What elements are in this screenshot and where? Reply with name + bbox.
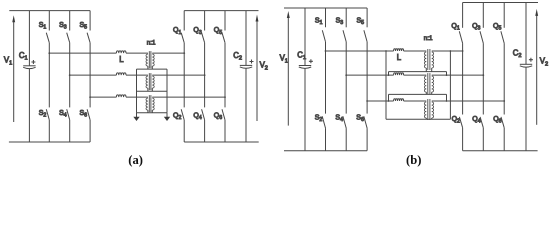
node: (b) output tap leg 1	[462, 50, 464, 52]
wire: (a) input bridge bottom rail	[9, 141, 90, 143]
wire: (b) input bridge top rail	[284, 7, 367, 9]
capacitor C1 (a)	[23, 65, 35, 67]
transformer T2 (b) primary winding	[424, 76, 426, 92]
capacitor C1 (a) leg wire	[28, 11, 30, 142]
wire: (b) output line C	[432, 100, 505, 102]
wire: (a) primary neutral bus	[136, 69, 138, 113]
V2 voltage arrow (a)	[256, 21, 258, 121]
transformer T3 (b) secondary winding	[432, 102, 434, 118]
wire: (a) Q leg 2 lower section	[204, 120, 206, 142]
svg-text:n:1: n:1	[424, 35, 433, 42]
wire: (a) leg 2 lower section	[69, 120, 71, 142]
wire: (b) Q leg 1 lower section	[462, 128, 464, 151]
switch S5 (b top leg 3)	[366, 8, 368, 27]
transformer T2 (a) secondary winding	[152, 76, 154, 88]
transformer T3 (b) core	[428, 99, 430, 120]
wire: (b) leg 1 lower section	[325, 128, 327, 151]
inductor L2 (a phase B)	[116, 73, 126, 75]
V2 voltage arrow (b)	[536, 15, 538, 124]
switch S2 (a bottom leg 1)	[46, 109, 49, 120]
wire: (a) leg 3 lower section	[89, 120, 91, 142]
wire: (a) leg 1 mid section	[48, 43, 50, 108]
wire: (b) Q leg 1 mid section	[462, 43, 464, 114]
switch S3 (a top leg 2)	[69, 11, 71, 31]
wire: (a) T3 bottom connector	[137, 112, 168, 114]
transformer T3 (a) secondary winding	[152, 98, 154, 110]
switch Q3 (b top leg 2)	[482, 3, 484, 28]
inductor L (b phase C)	[394, 99, 404, 101]
switch Q6 (b bottom leg 3)	[501, 117, 504, 128]
V1 voltage arrow (b)	[287, 18, 289, 126]
wire: (b) primary delta jump T3-to-A	[385, 51, 387, 119]
wire: (b) input bridge bottom rail	[284, 150, 367, 152]
svg-text:n:1: n:1	[147, 40, 156, 47]
switch Q1 (b top leg 1)	[462, 3, 464, 28]
wire: (a) phase line A	[49, 52, 116, 54]
node: (b) output tap leg 3	[503, 100, 505, 102]
wire: (b) output line A	[432, 50, 463, 52]
switch S2 (b bottom leg 1)	[322, 116, 325, 128]
wire: (a) phase line B	[70, 74, 117, 76]
wire: (b) secondary delta jump T3-to-a	[449, 51, 451, 119]
switch Q2 (a bottom leg 1)	[181, 109, 184, 120]
V1 voltage arrow (a)	[13, 22, 15, 122]
switch S3 (b top leg 2)	[345, 8, 347, 27]
wire: (a) output bridge bottom rail	[184, 141, 259, 143]
wire: (b) T2 bottom connector	[389, 93, 447, 95]
wire: (b) phase line B	[346, 74, 393, 76]
switch Q5 (a top leg 3)	[224, 11, 226, 31]
wire: (a) leg 3 mid section	[89, 43, 91, 108]
transformer T2 (a) core	[149, 73, 151, 90]
switch S6 (a bottom leg 3)	[87, 109, 90, 120]
node: (a) phase tap leg 1	[48, 52, 50, 54]
transformer T3 (b) primary winding	[424, 102, 426, 118]
wire: (a) output line B	[152, 74, 204, 76]
wire: (a) secondary neutral bus	[166, 69, 168, 113]
wire: (a) Q leg 2 mid section	[204, 43, 206, 108]
switch S1 (a top leg 1)	[48, 11, 50, 31]
wire: (b) output bridge top rail	[463, 2, 538, 4]
transformer T2 (b) secondary winding	[432, 76, 434, 92]
wire: (b) Q leg 2 lower section	[482, 128, 484, 151]
switch Q6 (a bottom leg 3)	[222, 109, 225, 120]
transformer T3 (a) primary winding	[146, 98, 148, 110]
wire: (b) leg 2 mid section	[345, 42, 347, 114]
switch Q3 (a top leg 2)	[204, 11, 206, 31]
capacitor C1 (b)	[299, 65, 311, 67]
plus polarity C1 (a)	[31, 60, 35, 64]
wire: (a) Q leg 3 lower section	[224, 120, 226, 142]
wire: (a) output line C	[152, 96, 225, 98]
node: (a) output tap leg 1	[183, 52, 185, 54]
node: (a) output tap leg 2	[204, 74, 206, 76]
svg-text:(a): (a)	[128, 153, 143, 167]
transformer T1 (a) primary winding	[146, 54, 148, 66]
switch S4 (a bottom leg 2)	[67, 109, 70, 120]
plus polarity C2 (a)	[250, 60, 254, 64]
ground (a) secondary side	[166, 113, 168, 117]
wire: (a) output bridge top rail	[184, 10, 258, 12]
wire: (b) primary delta jump T2-to-C	[388, 94, 390, 101]
switch Q1 (a top leg 1)	[183, 11, 185, 31]
inductor L (b phase B)	[394, 73, 404, 75]
transformer T3 (a) core	[149, 95, 151, 112]
wire: (a) leg 1 lower section	[48, 120, 50, 142]
wire: (b) leg 2 lower section	[345, 128, 347, 151]
wire: (b) phase line A	[326, 50, 394, 52]
transformer T1 (b) secondary winding	[432, 52, 434, 68]
wire: (b) primary delta jump T1-to-B	[388, 72, 390, 76]
inductor L (a phase A)	[116, 51, 126, 53]
wire: (b) T3 bottom connector	[386, 118, 450, 120]
switch S4 (b bottom leg 2)	[343, 116, 346, 128]
wire: (b) Q leg 2 mid section	[482, 43, 484, 114]
wire: (a) Q leg 1 lower section	[183, 120, 185, 142]
capacitor C2 (b)	[520, 63, 532, 65]
transformer T1 (a) core	[149, 51, 151, 68]
wire: (b) leg 3 mid section	[366, 42, 368, 114]
transformer T1 (b) core	[428, 49, 430, 70]
wire: (a) input bridge top rail	[9, 10, 90, 12]
wire: (b) Q leg 3 lower section	[503, 128, 505, 151]
node: (b) phase tap leg 2	[345, 74, 347, 76]
wire: (a) output line A	[152, 52, 184, 54]
transformer T2 (a) primary winding	[146, 76, 148, 88]
wire: (b) secondary delta jump T2-to-c	[446, 94, 448, 101]
switch S6 (b bottom leg 3)	[364, 116, 367, 128]
capacitor C2 (b) leg wire	[525, 3, 527, 151]
inductor L (b phase A)	[394, 49, 404, 51]
transformer T1 (b) primary winding	[424, 52, 426, 68]
node: (b) phase tap leg 3	[366, 100, 368, 102]
wire: (b) secondary delta jump T1-to-b	[446, 72, 448, 76]
wire: (a) Q leg 3 mid section	[224, 43, 226, 108]
plus polarity C1 (b)	[309, 59, 313, 63]
wire: (b) output bridge bottom rail	[463, 150, 538, 152]
wire: (b) phase line C	[367, 100, 394, 102]
svg-text:L: L	[397, 53, 402, 62]
transformer T2 (b) core	[428, 73, 430, 94]
switch Q5 (b top leg 3)	[503, 3, 505, 28]
node: (b) output tap leg 2	[482, 74, 484, 76]
capacitor C2 (a) leg wire	[245, 11, 247, 142]
switch Q4 (a bottom leg 2)	[202, 109, 205, 120]
capacitor C1 (b) leg wire	[304, 8, 306, 151]
svg-text:L: L	[119, 55, 124, 64]
switch S1 (b top leg 1)	[325, 8, 327, 27]
switch Q2 (b bottom leg 1)	[459, 117, 462, 128]
wire: (a) T2 bottom connector	[137, 90, 168, 92]
wire: (b) leg 1 mid section	[325, 42, 327, 114]
inductor L3 (a phase C)	[116, 95, 126, 97]
capacitor C2 (a)	[240, 64, 252, 66]
plus polarity C2 (b)	[529, 58, 533, 62]
wire: (b) T1 bottom connector	[389, 71, 447, 73]
switch S5 (a top leg 3)	[89, 11, 91, 31]
wire: (a) T1 bottom connector	[137, 68, 168, 70]
wire: (b) leg 3 lower section	[366, 128, 368, 151]
wire: (a) Q leg 1 mid section	[183, 43, 185, 108]
wire: (a) leg 2 mid section	[69, 43, 71, 108]
wire: (a) phase line C	[90, 96, 116, 98]
node: (a) phase tap leg 3	[89, 96, 91, 98]
node: (b) phase tap leg 1	[325, 50, 327, 52]
switch Q4 (b bottom leg 2)	[480, 117, 483, 128]
ground (a) primary side	[136, 113, 138, 117]
wire: (b) Q leg 3 mid section	[503, 43, 505, 114]
wire: (b) output line B	[432, 74, 484, 76]
node: (a) phase tap leg 2	[69, 74, 71, 76]
svg-text:(b): (b)	[406, 153, 421, 167]
node: (a) output tap leg 3	[224, 96, 226, 98]
transformer T1 (a) secondary winding	[152, 54, 154, 66]
